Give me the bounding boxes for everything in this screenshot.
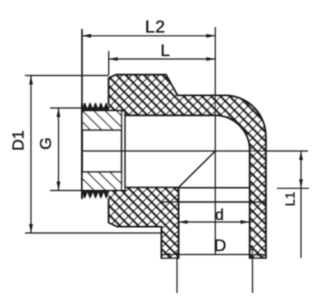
svg-text:L: L [161, 41, 170, 60]
svg-text:G: G [38, 137, 55, 149]
svg-text:d: d [215, 207, 224, 224]
svg-text:L2: L2 [145, 17, 165, 37]
svg-text:L1: L1 [282, 192, 297, 206]
svg-text:D1: D1 [11, 130, 28, 151]
svg-text:D: D [214, 236, 226, 255]
